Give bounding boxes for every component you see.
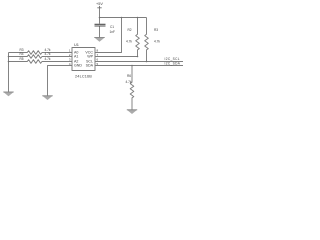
- svg-text:R5: R5: [20, 57, 24, 61]
- wire SDA row: [95, 65, 183, 67]
- svg-text:4.7k: 4.7k: [126, 80, 132, 84]
- wire R6 lower stem: [131, 99, 133, 110]
- svg-text:R2: R2: [128, 28, 132, 32]
- node junction R6 on SDA: [131, 65, 133, 67]
- svg-text:4.7k: 4.7k: [45, 52, 51, 56]
- resistor R2: [136, 33, 140, 51]
- svg-text:WP: WP: [87, 54, 93, 58]
- wire SCL row: [95, 61, 183, 63]
- wire cap branch upper: [99, 18, 101, 24]
- wire A2 row right segment: [44, 61, 72, 63]
- wire A1 row left segment: [9, 56, 27, 58]
- svg-text:4.7k: 4.7k: [154, 39, 160, 43]
- op-amp U1 body box: [72, 48, 95, 71]
- svg-text:4.7k: 4.7k: [126, 39, 132, 43]
- resistor R3: [26, 51, 44, 55]
- wire WP pin to R2: [95, 56, 138, 58]
- svg-text:1nF: 1nF: [110, 30, 116, 34]
- svg-text:A1: A1: [74, 54, 78, 58]
- svg-text:4.7k: 4.7k: [45, 57, 51, 61]
- ground (resistor R6): [127, 110, 137, 114]
- ground (chip GND pin): [42, 96, 52, 100]
- wire left bus vertical: [8, 53, 10, 93]
- node junction rail R2: [137, 17, 139, 19]
- wire R2 upper stem: [137, 18, 139, 34]
- resistor R4: [26, 55, 44, 59]
- svg-text:R6: R6: [127, 74, 131, 78]
- resistor R6: [130, 81, 134, 99]
- wire R2 lower stem: [137, 51, 139, 57]
- svg-text:I2C_SCL: I2C_SCL: [165, 57, 180, 61]
- svg-text:R3: R3: [154, 28, 158, 32]
- wire A2 row left segment: [9, 61, 27, 63]
- power +5V terminal bar: [97, 6, 101, 8]
- node junction left bus A1: [8, 56, 10, 58]
- node junction left bus A2: [8, 61, 10, 63]
- svg-text:GND: GND: [74, 63, 82, 67]
- ground (capacitor C1): [94, 38, 104, 42]
- svg-text:I2C_SDA: I2C_SDA: [165, 62, 181, 66]
- svg-text:+5V: +5V: [96, 2, 103, 6]
- wire R3 lower stem: [146, 51, 148, 62]
- wire A0 row left segment: [9, 52, 27, 54]
- wire GND pin to lower ground: [48, 66, 73, 96]
- wire R3 upper stem: [146, 18, 148, 34]
- svg-text:U1: U1: [74, 42, 79, 47]
- node junction R3 on SCL: [146, 61, 148, 63]
- resistor R3: [145, 33, 149, 51]
- capacitor C1: [95, 24, 106, 26]
- wire A0 row right segment: [44, 52, 72, 54]
- svg-text:SDA: SDA: [86, 63, 94, 67]
- svg-text:24LC16B: 24LC16B: [75, 75, 92, 79]
- wire A1 row right segment: [44, 56, 72, 58]
- wire cap branch lower: [99, 27, 101, 38]
- svg-text:C1: C1: [110, 25, 114, 29]
- node junction R2 on WP: [137, 56, 139, 58]
- node junction rail cap: [99, 17, 101, 19]
- svg-text:R4: R4: [20, 52, 24, 56]
- wire VCC pin to rail: [95, 18, 122, 53]
- resistor R5: [26, 60, 44, 64]
- node junction rail VCC drop: [121, 17, 123, 19]
- ground (left bus): [3, 92, 13, 96]
- wire R6 upper stem: [131, 66, 133, 82]
- wire VDD rail: [100, 17, 147, 19]
- wire VDD stem: [99, 8, 101, 18]
